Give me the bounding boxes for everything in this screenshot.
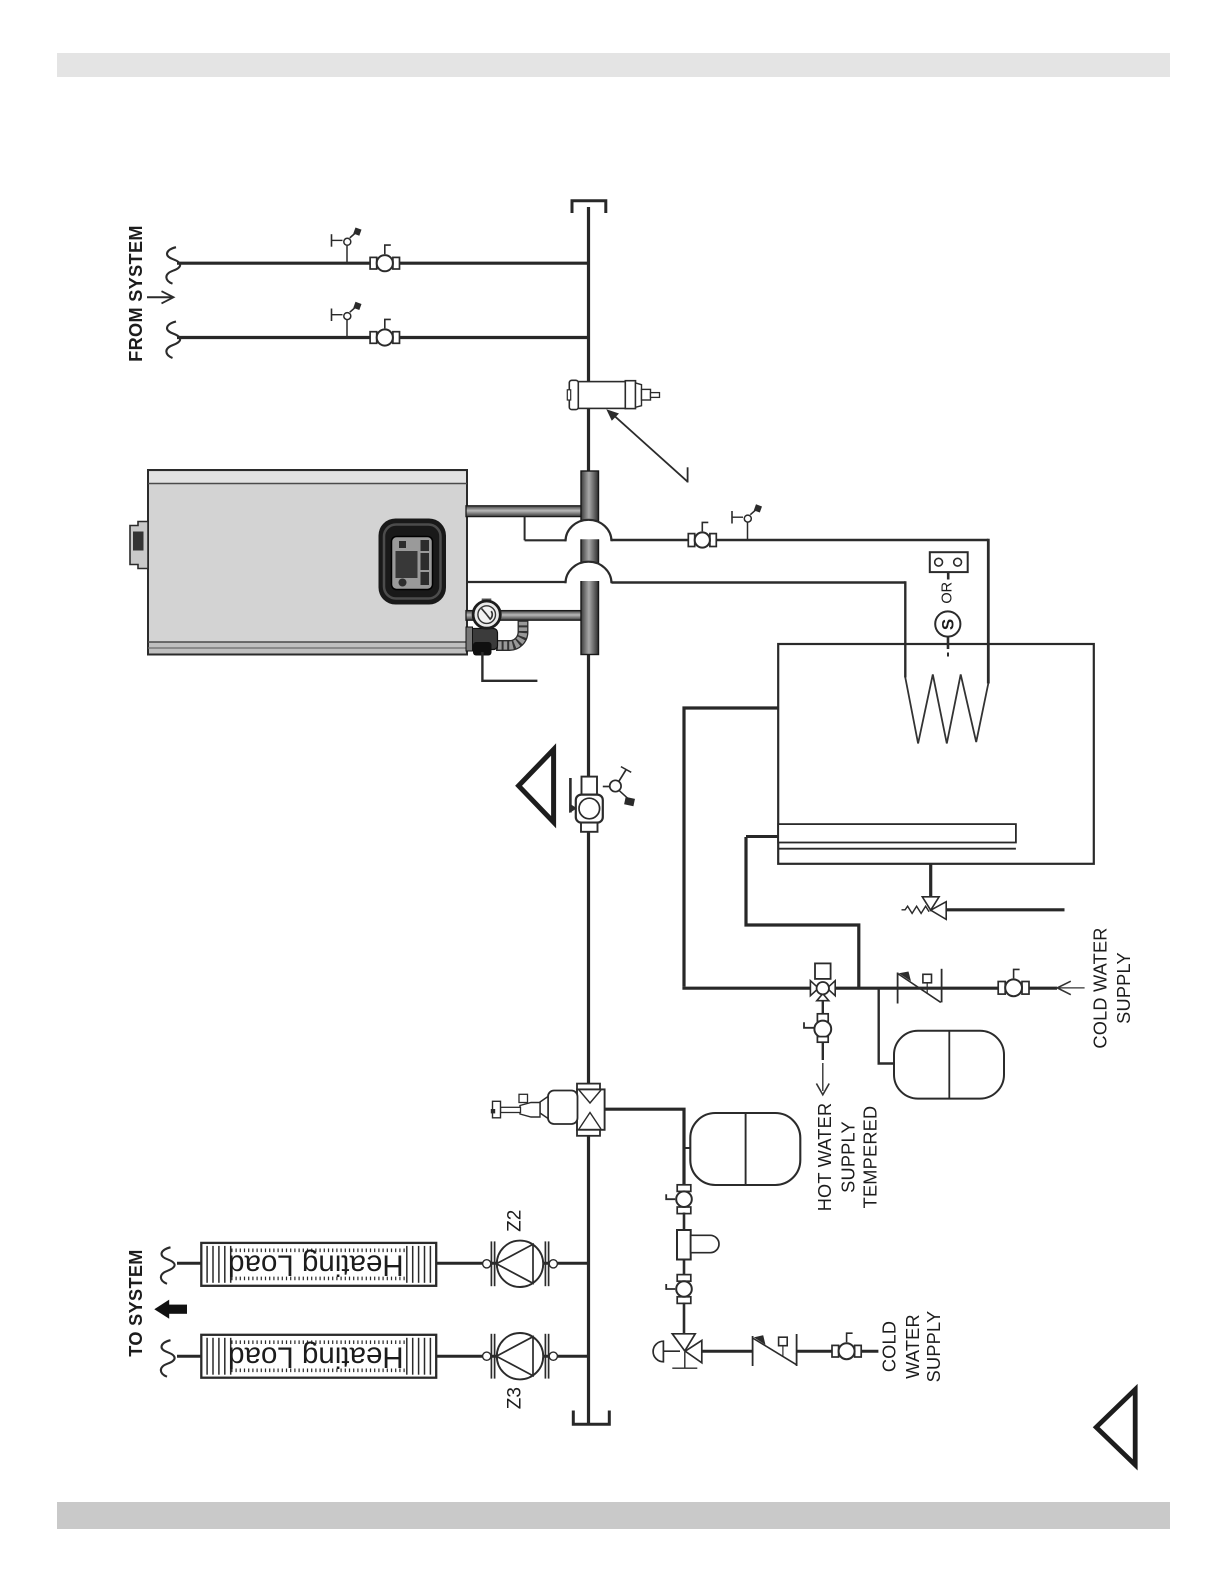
arrow cold water supply (upper) bbox=[1057, 981, 1085, 995]
circulator pump Z3 bbox=[483, 1333, 558, 1379]
wire: fill line segment bbox=[683, 1260, 686, 1282]
wire: boiler supply thick pipe bbox=[466, 506, 583, 517]
air vent on DHW supply bbox=[732, 504, 762, 540]
node: top pipe cap bracket bbox=[572, 201, 606, 213]
ball valve on pipe 2 bbox=[370, 319, 399, 345]
check valve on cold supply bbox=[898, 969, 942, 1004]
tank dip tube / element bbox=[778, 824, 1016, 842]
indirect water heater tank bbox=[778, 644, 1094, 864]
wire: tempered water main bbox=[682, 987, 1057, 990]
boiler control panel bbox=[379, 519, 447, 605]
wire: DHW return pipe right of header bbox=[612, 581, 906, 584]
wire: fill line segment bbox=[683, 1213, 686, 1231]
pressure gauge bbox=[473, 599, 500, 629]
wire: return pipe 2 from system bbox=[177, 336, 589, 339]
pipe break squiggle 2 bbox=[166, 322, 180, 359]
circulator pump Z2 bbox=[483, 1241, 558, 1287]
pump elbow hose bbox=[496, 621, 528, 651]
svg-text:Heating Load: Heating Load bbox=[228, 1248, 404, 1281]
check valve on fill cold feed bbox=[753, 1334, 797, 1366]
heating load radiator Z2 bbox=[201, 1243, 436, 1286]
air separator bbox=[567, 380, 659, 409]
wire: pump drain line bbox=[482, 652, 537, 681]
wire: hot water supply stub bbox=[822, 1042, 824, 1060]
boiler jacket bbox=[148, 470, 467, 655]
wire: zone 2 branch pipe bbox=[177, 1262, 589, 1265]
wire: main vertical pipe bbox=[587, 207, 590, 1425]
wire: expansion tank stub bbox=[684, 1147, 691, 1149]
wire: DHW return pipe (lower) from boiler bbox=[466, 581, 567, 583]
wire: relief discharge bbox=[946, 908, 1064, 911]
pipe crossover arc 2 bbox=[566, 562, 612, 584]
arrow hot water supply bbox=[816, 1063, 829, 1095]
wire: potable expansion tank drop bbox=[879, 988, 894, 1063]
svg-text:COLDWATERSUPPLY: COLDWATERSUPPLY bbox=[880, 1311, 945, 1383]
ball valve on fill line (lower) bbox=[666, 1275, 692, 1304]
pipe break squiggle zone 2 bbox=[161, 1247, 175, 1284]
pipe break squiggle 1 bbox=[166, 247, 180, 284]
svg-text:S: S bbox=[938, 619, 957, 630]
arrow to-system flow bbox=[154, 1300, 187, 1319]
air purger on main bbox=[491, 1084, 605, 1136]
wire: dashed sensor link bbox=[947, 573, 950, 580]
svg-text:FROM SYSTEM: FROM SYSTEM bbox=[126, 225, 146, 362]
ball valve on fill line (upper) bbox=[666, 1185, 692, 1214]
svg-text:OR: OR bbox=[940, 582, 956, 604]
svg-text:TO SYSTEM: TO SYSTEM bbox=[126, 1249, 146, 1356]
bottom gray footer bar bbox=[57, 1502, 1170, 1529]
air vent on pipe 1 bbox=[332, 227, 362, 263]
potable expansion tank bbox=[894, 1031, 1004, 1099]
wire: boiler return thick pipe bbox=[466, 611, 583, 621]
wire: tempered outlet drop bbox=[822, 1001, 824, 1014]
wire: DHW supply pipe (upper) left of header bbox=[525, 539, 567, 541]
wire: DHW supply pipe right of header bbox=[612, 539, 989, 542]
wire: hot outlet from tank bbox=[746, 837, 859, 988]
ball valve on cold supply bbox=[998, 969, 1029, 996]
arrow from-system flow bbox=[147, 291, 174, 303]
wire: coil return drop (left) bbox=[904, 581, 906, 677]
boiler left connection flange bbox=[130, 522, 148, 569]
pipe crossover arc 1 bbox=[566, 520, 612, 542]
svg-text:Z2: Z2 bbox=[504, 1210, 525, 1232]
wire: return pipe 1 from system bbox=[177, 262, 589, 265]
T&P relief valve bbox=[902, 897, 947, 920]
flow check valve on main bbox=[569, 767, 635, 832]
heat exchanger coil zigzag bbox=[905, 674, 988, 743]
wire: cold feed inlet stub bbox=[861, 1350, 878, 1353]
wire: fill line to expansion tank bbox=[605, 1109, 684, 1186]
heating expansion tank bbox=[690, 1113, 800, 1185]
sensor S symbol bbox=[935, 611, 960, 656]
wire: cold feed to fill valve bbox=[702, 1350, 753, 1353]
ball valve on cold feed bbox=[832, 1333, 861, 1359]
heating load radiator Z3 bbox=[201, 1335, 436, 1378]
arrow pointing to air separator bbox=[606, 409, 687, 482]
wire: cold feed segment bbox=[797, 1350, 833, 1353]
boiler pump body bbox=[466, 627, 498, 656]
wire: cold feed to tank (upper-left inlet) bbox=[684, 708, 778, 987]
ball valve on tempered outlet bbox=[804, 1014, 831, 1042]
low loss header (closely spaced tees) bbox=[581, 471, 599, 655]
svg-text:Heating Load: Heating Load bbox=[228, 1340, 404, 1373]
node: bottom pipe cap bracket bbox=[573, 1411, 609, 1425]
wire: T&P relief drop bbox=[929, 864, 932, 897]
pressure reducing fill valve bbox=[653, 1334, 702, 1368]
backflow preventer bbox=[677, 1230, 719, 1260]
triangle marker (mid page) bbox=[519, 750, 554, 823]
top gray header bar bbox=[57, 53, 1170, 77]
tempering mixing valve bbox=[810, 963, 835, 1000]
svg-text:Z3: Z3 bbox=[504, 1387, 525, 1409]
wire: zone 3 branch pipe bbox=[177, 1355, 589, 1358]
wire: drop from supply pipe bbox=[524, 517, 526, 541]
air vent on pipe 2 bbox=[332, 302, 362, 338]
ball valve on DHW supply bbox=[688, 522, 716, 547]
ball valve on pipe 1 bbox=[370, 245, 399, 271]
wire: fill line segment bbox=[683, 1303, 686, 1335]
aquastat well bbox=[930, 552, 968, 572]
pipe break squiggle zone 3 bbox=[161, 1340, 175, 1377]
triangle marker (bottom right) bbox=[1096, 1390, 1135, 1465]
wire: coil supply riser (right) bbox=[987, 539, 990, 684]
